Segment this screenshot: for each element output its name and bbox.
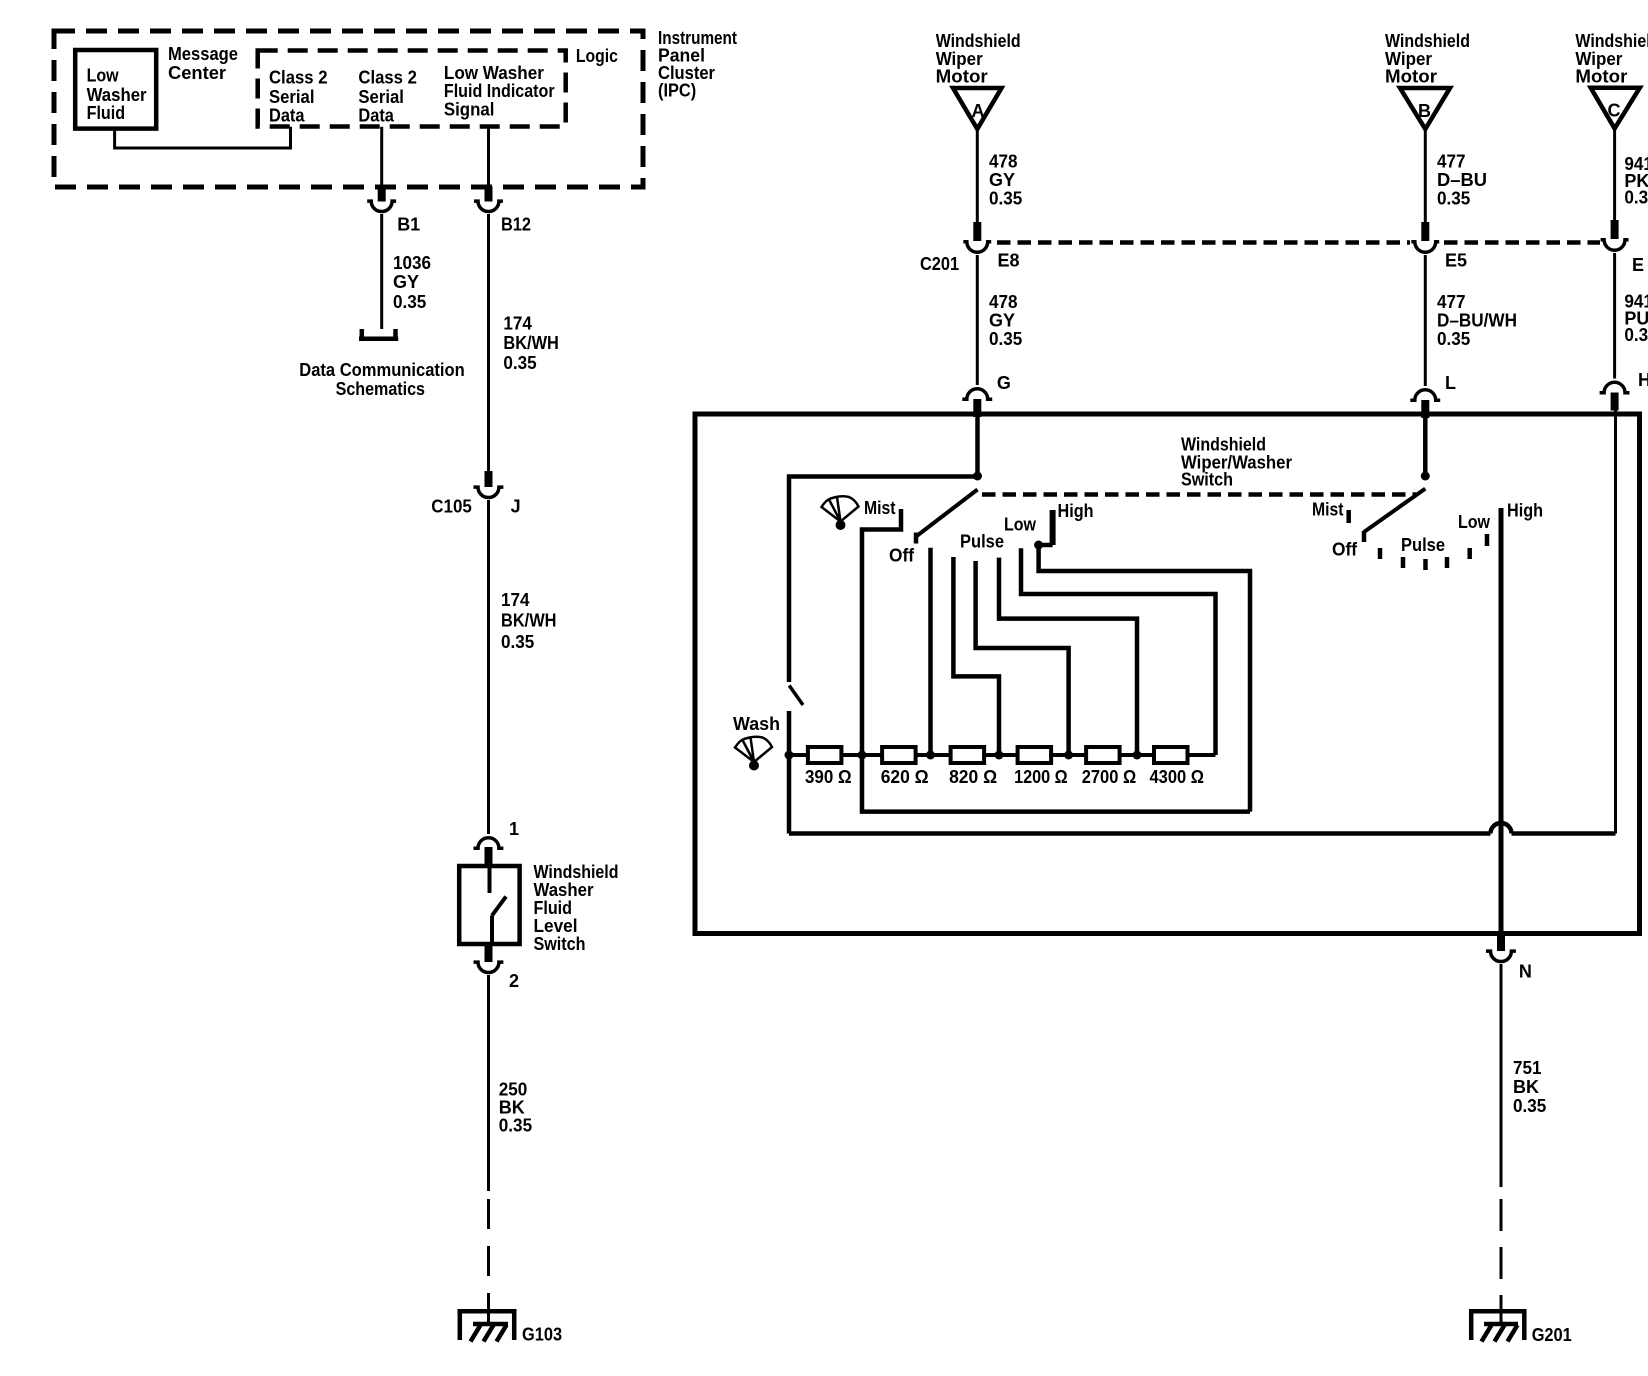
svg-text:Wash: Wash: [733, 714, 780, 734]
wire: C105 to washer switch pin 1, 174 BK/WH 0.35: [487, 500, 490, 834]
svg-text:Schematics: Schematics: [336, 379, 425, 399]
svg-text:H: H: [1638, 370, 1648, 390]
contact Pulse 2 (switch 1): [976, 561, 1069, 755]
svg-text:C201: C201: [920, 254, 959, 274]
svg-text:Center: Center: [168, 63, 226, 83]
connector pin N at box bottom: [1486, 935, 1516, 962]
wire: bottom return run continues to motor C drop: [1512, 831, 1616, 836]
svg-text:High: High: [1058, 501, 1094, 521]
label Off (switch 2): [1332, 540, 1358, 560]
label: Windshield Wiper Motor A: [936, 31, 1021, 87]
label Pulse (switch 2): [1401, 535, 1445, 555]
label: Logic: [576, 46, 618, 66]
svg-text:751: 751: [1513, 1058, 1542, 1078]
wire: E5 to L, 477 D-BU/WH 0.35: [1424, 255, 1427, 386]
switch blade: wiper switch 1: [916, 490, 978, 544]
connector C201 pin E5: [1411, 222, 1439, 252]
dashed gang line between switch halves: [982, 492, 1416, 497]
svg-text:C105: C105: [431, 497, 472, 517]
node: Pulse2 tap at 1200/2700 junction: [1064, 751, 1073, 760]
svg-text:Logic: Logic: [576, 46, 618, 66]
connector label C105 / J: [431, 497, 520, 517]
resistor 820 ohm: [951, 747, 985, 763]
node: junction of wash wire and resistor chain: [785, 751, 794, 760]
label Wash: [733, 714, 780, 734]
svg-text:1036: 1036: [393, 253, 431, 273]
wiper icon at Wash: [735, 737, 772, 771]
svg-text:G: G: [997, 373, 1011, 393]
node: Off tap at 620/820 junction: [926, 751, 935, 760]
node: switch 1 pivot junction: [973, 472, 982, 481]
svg-text:477: 477: [1437, 152, 1466, 172]
svg-text:0.35: 0.35: [989, 189, 1022, 209]
svg-text:0.35: 0.35: [1624, 188, 1648, 208]
svg-text:Off: Off: [1332, 540, 1358, 560]
label: Message Center: [168, 44, 238, 83]
box: Logic, dashed: [258, 51, 566, 127]
pin B12: [474, 187, 503, 212]
wire: Low Washer Fluid box to Class 2 Serial Data: [115, 127, 291, 148]
wire label 941 PK 0.35: [1624, 154, 1648, 208]
wire dashed continuation to ground G201: [1500, 1199, 1503, 1324]
value label 2700 ohm: [1082, 767, 1137, 787]
contact Off (switch 1): [928, 548, 933, 755]
svg-text:Pulse: Pulse: [1401, 535, 1445, 555]
svg-text:(IPC): (IPC): [658, 81, 696, 101]
value label 820 ohm: [949, 767, 997, 787]
connector pin H of wiper/washer switch: [1600, 382, 1630, 410]
switch: Windshield Washer Fluid Level Switch box: [459, 866, 519, 944]
svg-text:GY: GY: [989, 170, 1015, 190]
svg-text:L: L: [1445, 373, 1456, 393]
svg-text:Windshield: Windshield: [534, 862, 619, 882]
svg-text:0.35: 0.35: [503, 353, 536, 373]
svg-text:Low Washer: Low Washer: [444, 63, 544, 83]
pin label 1: [509, 819, 519, 839]
svg-text:BK: BK: [1513, 1077, 1539, 1097]
svg-text:Switch: Switch: [534, 934, 586, 954]
node: switch 2 pivot junction: [1421, 472, 1430, 481]
ground G201: [1469, 1311, 1527, 1341]
contact stub Pulse c (switch 2): [1423, 559, 1428, 570]
svg-text:Mist: Mist: [1312, 500, 1344, 520]
value label 4300 ohm: [1150, 767, 1205, 787]
svg-text:Low: Low: [1004, 515, 1037, 535]
ground label G103: [522, 1325, 562, 1345]
svg-text:E5: E5: [1445, 251, 1467, 271]
svg-text:Switch: Switch: [1181, 470, 1233, 490]
wire: bottom run to High riser: [860, 809, 1250, 814]
svg-text:BK: BK: [499, 1097, 525, 1117]
wire: N to G201, 751 BK 0.35: [1500, 964, 1503, 1187]
pin label B1: [397, 215, 420, 235]
switch contact: fixed stub from pin 1: [488, 866, 492, 893]
resistor 1200 ohm: [1018, 747, 1052, 763]
svg-text:Signal: Signal: [444, 99, 495, 119]
svg-text:E: E: [1632, 255, 1644, 275]
svg-text:Fluid Indicator: Fluid Indicator: [444, 81, 555, 101]
label: Class 2 Serial Data (right): [358, 68, 417, 126]
component: Windshield Wiper Motor B triangle: [1400, 88, 1450, 129]
svg-text:Washer: Washer: [87, 85, 147, 105]
svg-text:0.35: 0.35: [1513, 1096, 1546, 1116]
svg-text:Motor: Motor: [1575, 67, 1627, 87]
label Low (switch 2): [1458, 512, 1491, 532]
svg-text:0.35: 0.35: [499, 1115, 532, 1135]
wire: motor C drop from pin H to bottom return: [1614, 410, 1617, 834]
pin label G: [997, 373, 1011, 393]
svg-text:BK/WH: BK/WH: [503, 333, 559, 353]
label: Class 2 Serial Data (left): [269, 68, 328, 126]
crossover hop over High riser: [1491, 823, 1512, 834]
svg-text:Fluid: Fluid: [87, 103, 126, 123]
triangle letter C: [1608, 101, 1621, 121]
svg-text:Motor: Motor: [936, 67, 988, 87]
label: Windshield Wiper Motor C: [1575, 31, 1648, 87]
svg-text:G103: G103: [522, 1325, 562, 1345]
svg-text:Level: Level: [534, 916, 578, 936]
svg-text:478: 478: [989, 152, 1018, 172]
node: Pulse1 tap at 820/1200 junction: [995, 751, 1004, 760]
svg-text:N: N: [1519, 961, 1532, 981]
connector C201 pin E8: [963, 222, 991, 252]
component: Windshield Wiper Motor A triangle: [953, 88, 1002, 129]
connector pin G of wiper/washer switch: [962, 389, 992, 417]
resistor 620 ohm: [882, 747, 916, 763]
ground label G201: [1532, 1325, 1572, 1345]
wire: wash switch lower stub: [787, 711, 792, 834]
label: Data Communication Schematics: [299, 360, 465, 399]
svg-text:2700 Ω: 2700 Ω: [1082, 767, 1137, 787]
wire label 751 BK 0.35: [1513, 1058, 1546, 1116]
wire: pin 2 to G103, 250 BK 0.35: [487, 975, 490, 1191]
svg-text:478: 478: [989, 292, 1018, 312]
svg-text:Windshield: Windshield: [1181, 435, 1266, 455]
svg-text:C: C: [1608, 101, 1621, 121]
label: Low Washer Fluid: [87, 66, 147, 124]
svg-text:620 Ω: 620 Ω: [881, 767, 929, 787]
wire: Low Washer Fluid Indicator Signal to pin B12: [487, 127, 490, 187]
node: Mist tap at 390/620 junction: [858, 751, 867, 760]
svg-text:D–BU: D–BU: [1437, 170, 1487, 190]
box: Windshield Wiper/Washer Switch: [695, 414, 1640, 934]
svg-text:Data: Data: [269, 106, 305, 126]
contact Pulse 3 (switch 1): [999, 558, 1137, 755]
svg-text:0.35: 0.35: [1624, 325, 1648, 345]
pin label N: [1519, 961, 1532, 981]
wire: Class 2 Serial Data to pin B1: [380, 127, 383, 187]
svg-text:Windshield: Windshield: [1385, 31, 1470, 51]
svg-text:J: J: [511, 497, 521, 517]
value label 390 ohm: [805, 767, 852, 787]
wire: bottom return run from wash to motor C drop: [789, 831, 1491, 836]
wiper icon at Mist: [822, 496, 859, 530]
contact Pulse 1 (switch 1): [953, 557, 999, 755]
svg-text:Off: Off: [889, 546, 915, 566]
label: Low Washer Fluid Indicator Signal: [444, 63, 555, 120]
svg-text:1: 1: [509, 819, 519, 839]
label High (switch 2): [1507, 501, 1543, 521]
svg-text:Windshield: Windshield: [936, 31, 1021, 51]
contact stub Mist (switch 2): [1346, 510, 1351, 523]
contact stub Pulse b (switch 2): [1401, 557, 1406, 568]
triangle letter A: [972, 101, 985, 121]
contact High (switch 1): [1039, 510, 1250, 812]
svg-text:G201: G201: [1532, 1325, 1572, 1345]
value label 1200 ohm: [1014, 767, 1068, 787]
resistor 390 ohm: [808, 747, 842, 763]
switch contact: stub to pin 2: [490, 916, 494, 945]
wire label 477 D-BU/WH 0.35: [1437, 292, 1517, 349]
connector label E5: [1445, 251, 1467, 271]
wire: E8 to G, 478 GY 0.35: [976, 255, 979, 385]
connector pin 1 of washer fluid level switch: [474, 838, 504, 865]
wire dashed continuation to ground: [487, 1199, 490, 1324]
svg-text:E8: E8: [998, 251, 1020, 271]
svg-text:D–BU/WH: D–BU/WH: [1437, 311, 1517, 331]
box: Instrument Panel Cluster (IPC), dashed: [54, 31, 643, 187]
svg-text:0.35: 0.35: [989, 329, 1022, 349]
label Mist (switch 1): [864, 498, 896, 518]
wire: E to H, 941 PU 0.35: [1613, 253, 1616, 379]
wire: motor C to E, 941 PK 0.35: [1613, 129, 1616, 222]
wire: pin L down to pivot 2: [1423, 418, 1428, 472]
connector C201 pin E: [1601, 220, 1629, 250]
wire: motor B to E5, 477 D-BU 0.35: [1424, 129, 1427, 223]
node: High contact junction: [1034, 541, 1043, 550]
wire: feed to wash switch (left run): [789, 477, 978, 683]
triangle letter B: [1418, 101, 1431, 121]
contact stub Pulse e (switch 2): [1467, 548, 1472, 559]
pin label H: [1638, 370, 1648, 390]
svg-text:Class 2: Class 2: [269, 68, 328, 88]
svg-text:1200 Ω: 1200 Ω: [1014, 767, 1068, 787]
contact High (switch 2) riser to pin N: [1499, 508, 1504, 936]
svg-text:0.35: 0.35: [501, 632, 534, 652]
label Pulse (switch 1): [960, 532, 1004, 552]
svg-text:High: High: [1507, 501, 1543, 521]
wire label 174 BK/WH 0.35 (upper): [503, 314, 559, 373]
pin label B12: [501, 215, 531, 235]
svg-text:Serial: Serial: [269, 87, 315, 107]
svg-text:174: 174: [503, 314, 532, 334]
svg-text:Windshield: Windshield: [1575, 31, 1648, 51]
svg-text:820 Ω: 820 Ω: [949, 767, 997, 787]
pin B1: [367, 187, 396, 212]
svg-text:Class 2: Class 2: [358, 68, 417, 88]
wire: resistor chain rail: [789, 753, 1216, 757]
contact Mist (switch 1): [862, 509, 901, 755]
svg-text:2: 2: [509, 971, 519, 991]
wire label 250 BK 0.35: [499, 1079, 532, 1135]
connector pin L of wiper/washer switch: [1410, 390, 1440, 418]
pin label L: [1445, 373, 1456, 393]
contact Low (switch 1): [1021, 548, 1216, 755]
label Off (switch 1): [889, 546, 915, 566]
svg-text:Mist: Mist: [864, 498, 896, 518]
svg-text:0.35: 0.35: [1437, 189, 1470, 209]
label: Windshield Wiper Motor B: [1385, 31, 1470, 87]
svg-text:B1: B1: [397, 215, 420, 235]
svg-text:174: 174: [501, 590, 530, 610]
svg-text:Data: Data: [358, 106, 394, 126]
value label 620 ohm: [881, 767, 929, 787]
svg-text:477: 477: [1437, 292, 1466, 312]
svg-text:4300 Ω: 4300 Ω: [1150, 767, 1205, 787]
ground G103: [458, 1311, 517, 1341]
resistor 2700 ohm: [1086, 747, 1120, 763]
svg-text:B12: B12: [501, 215, 531, 235]
wire: B1 to Data Communication Schematics, 1036 GY 0.35: [380, 214, 383, 329]
switch blade: wash (open): [789, 686, 803, 706]
switch blade (open): [492, 897, 506, 916]
contact stub Low (switch 2): [1485, 534, 1490, 546]
svg-text:Serial: Serial: [358, 87, 404, 107]
svg-text:Pulse: Pulse: [960, 532, 1004, 552]
wire label 1036 GY 0.35: [393, 253, 431, 312]
wire label 478 GY 0.35 (upper): [989, 152, 1022, 209]
off-page bracket: Data Communication Schematics: [359, 329, 398, 339]
connector label C201 / E8: [920, 251, 1020, 275]
svg-text:B: B: [1418, 101, 1431, 121]
label Mist (switch 2): [1312, 500, 1344, 520]
wire label 174 BK/WH 0.35 (lower): [501, 590, 557, 652]
connector label E: [1632, 255, 1644, 275]
wire label 941 PU 0.35: [1624, 292, 1648, 345]
svg-text:0.35: 0.35: [1437, 329, 1470, 349]
resistor 4300 ohm: [1154, 747, 1188, 763]
svg-text:Message: Message: [168, 44, 238, 64]
svg-text:Washer: Washer: [534, 880, 594, 900]
dashed harness line C201: [997, 240, 1600, 245]
wire label 478 GY 0.35 (lower): [989, 292, 1022, 349]
switch blade: wiper switch 2: [1364, 489, 1425, 542]
component: Windshield Wiper Motor C triangle: [1591, 88, 1640, 129]
connector pin 2 of washer fluid level switch: [474, 945, 504, 973]
wire: Mist tap down to bottom run: [860, 755, 865, 812]
node: Pulse3 tap at 2700/4300 junction: [1133, 751, 1142, 760]
label: Instrument Panel Cluster (IPC): [658, 28, 737, 101]
wire: motor A to E8, 478 GY 0.35: [976, 129, 979, 223]
label: Windshield Washer Fluid Level Switch: [534, 862, 619, 954]
svg-text:0.35: 0.35: [393, 292, 426, 312]
svg-text:A: A: [972, 101, 985, 121]
svg-text:Data Communication: Data Communication: [299, 360, 465, 380]
wire: B12 to C105, 174 BK/WH 0.35: [487, 214, 490, 472]
contact stub Pulse a (switch 2): [1378, 548, 1383, 559]
connector C105 pin J: [474, 471, 504, 498]
svg-text:GY: GY: [989, 311, 1015, 331]
wire: pin G down to pivot junction: [975, 417, 980, 472]
svg-text:Low: Low: [1458, 512, 1491, 532]
wire label 477 D-BU 0.35: [1437, 152, 1487, 209]
label: Windshield Wiper/Washer Switch: [1181, 435, 1292, 490]
svg-text:GY: GY: [393, 272, 419, 292]
contact stub Pulse d (switch 2): [1445, 557, 1450, 568]
label High (switch 1): [1058, 501, 1094, 521]
svg-text:Motor: Motor: [1385, 67, 1437, 87]
svg-text:BK/WH: BK/WH: [501, 611, 557, 631]
svg-text:Fluid: Fluid: [534, 898, 573, 918]
svg-text:Low: Low: [87, 66, 120, 86]
svg-text:390 Ω: 390 Ω: [805, 767, 852, 787]
pin label 2: [509, 971, 519, 991]
label Low (switch 1): [1004, 515, 1037, 535]
box: Low Washer Fluid indicator (Message Center): [75, 50, 156, 129]
